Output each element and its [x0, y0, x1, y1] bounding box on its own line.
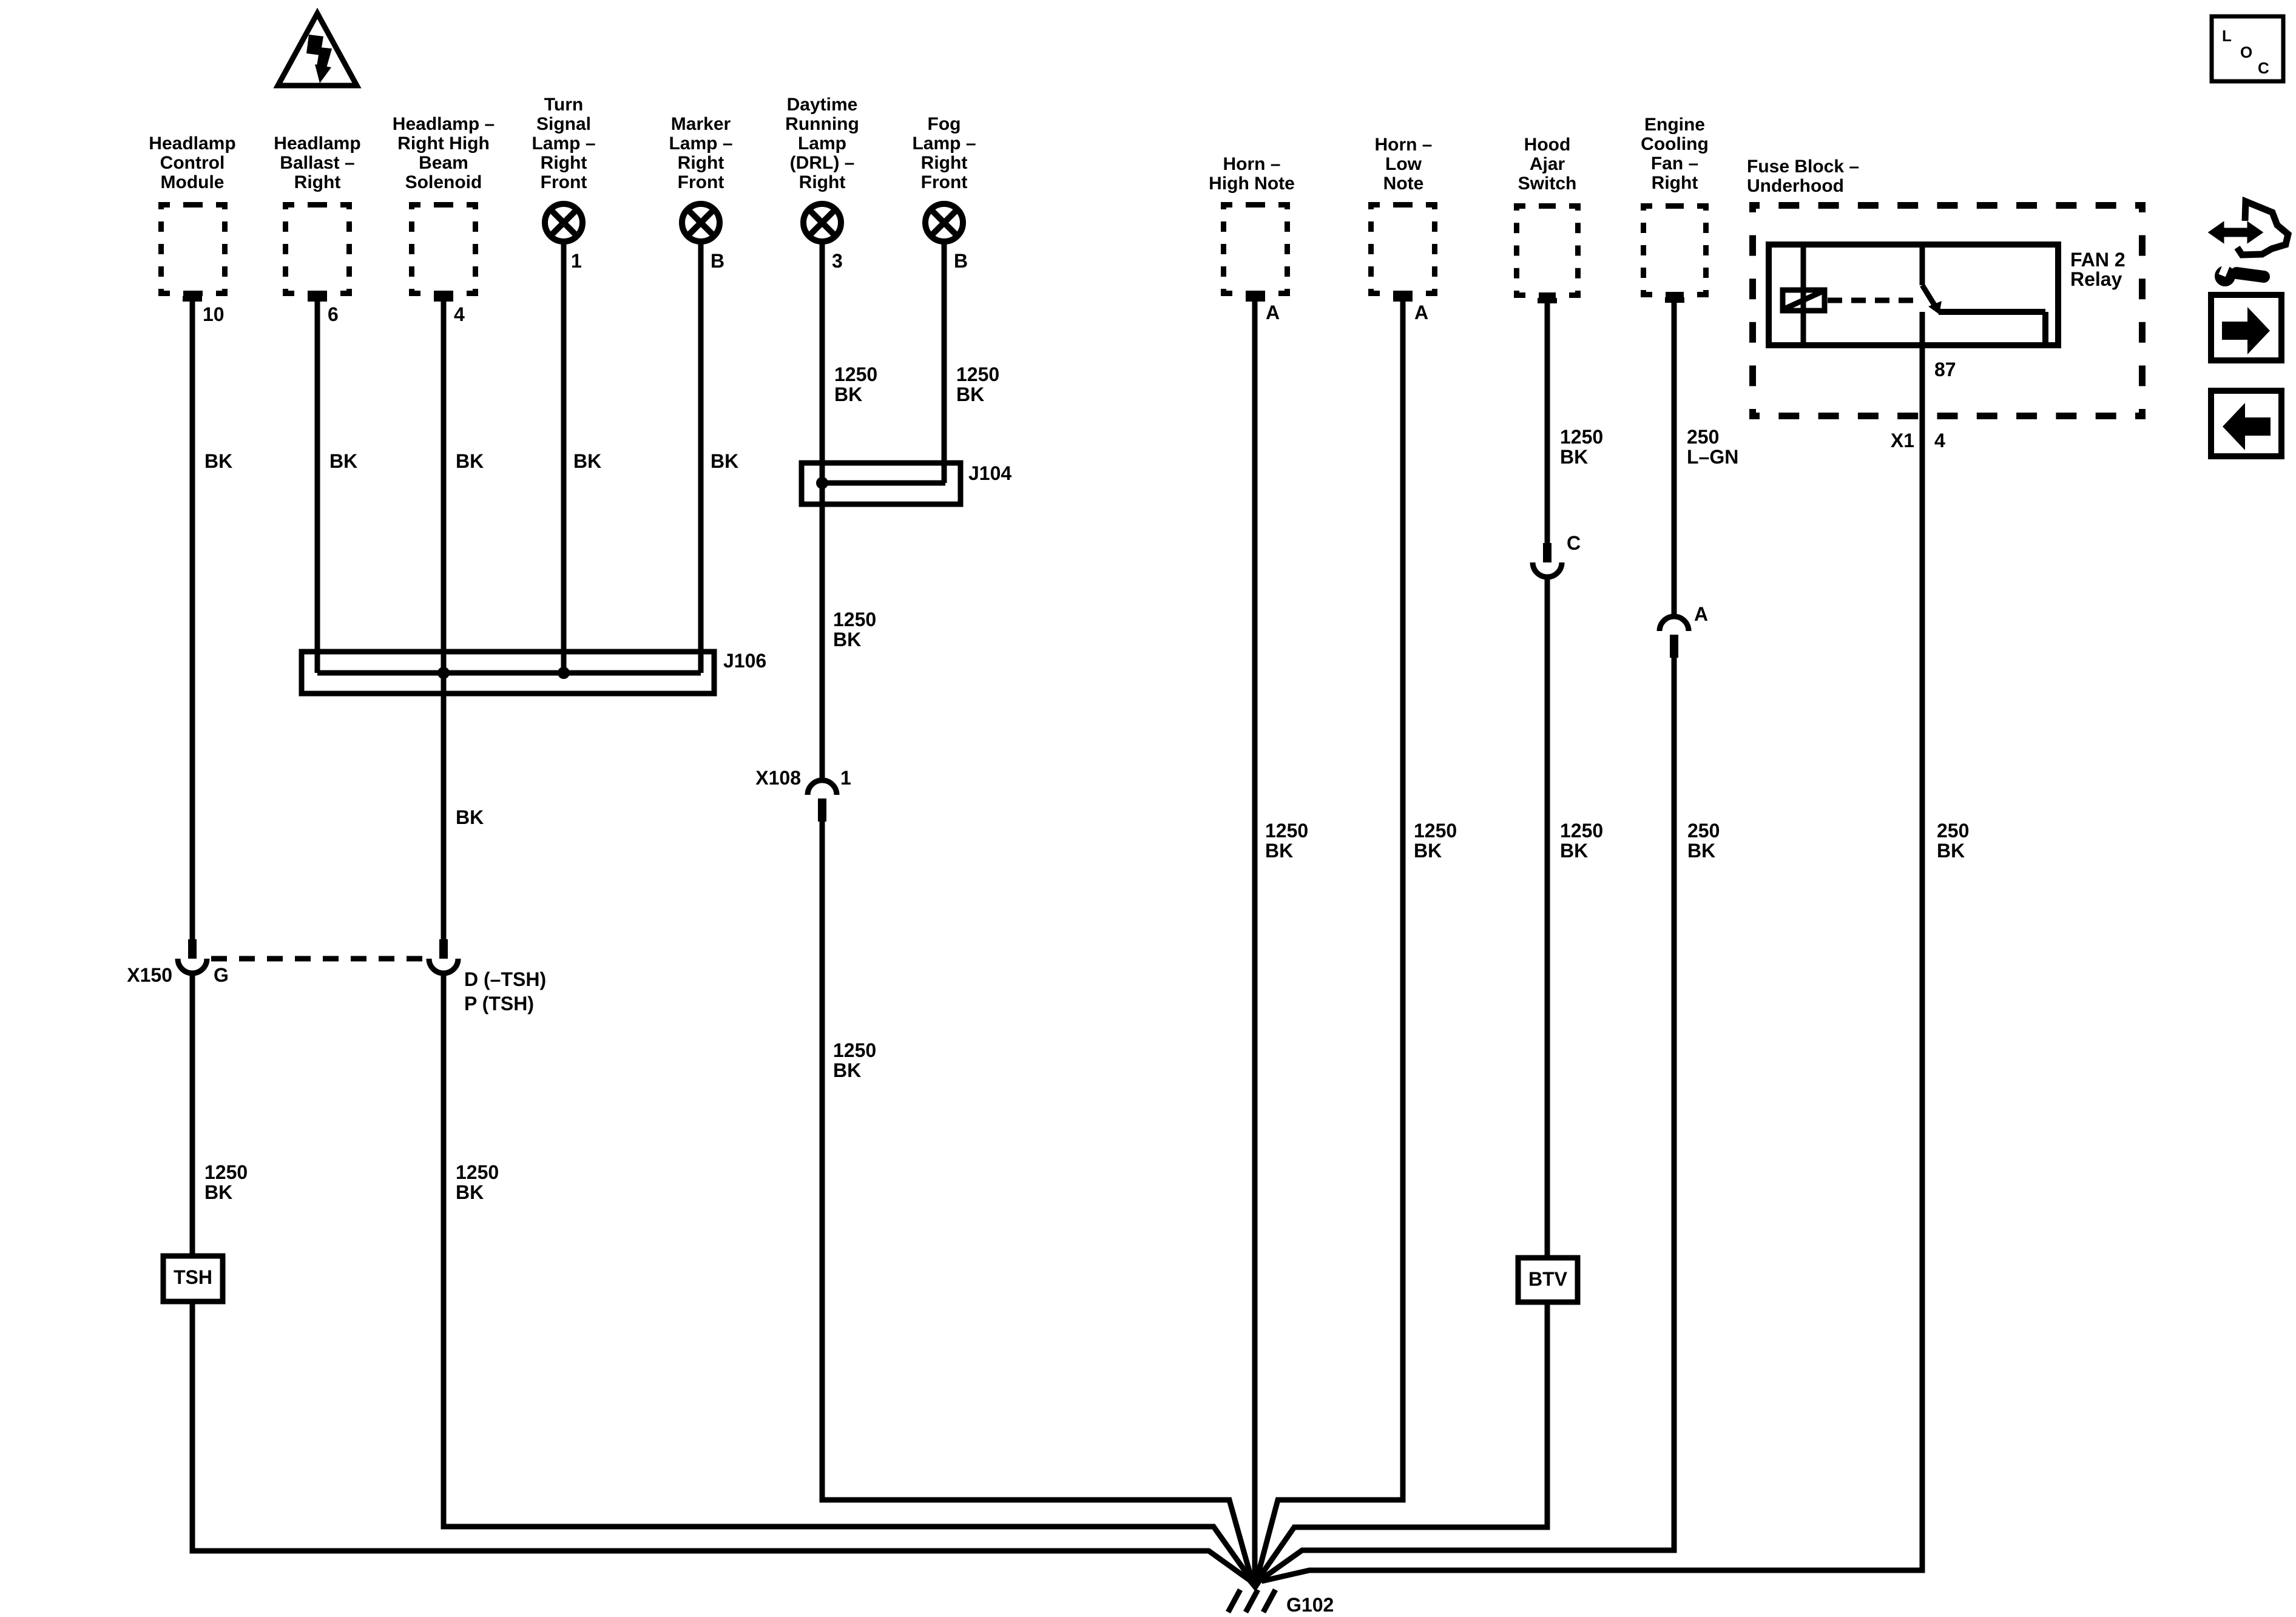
svg-text:L: L — [2222, 27, 2232, 45]
svg-text:Horn –: Horn – — [1374, 135, 1432, 155]
connector X108 (inline) — [808, 780, 837, 795]
wire - X150 G to TSH symbol — [190, 972, 195, 1256]
svg-text:Ajar: Ajar — [1530, 154, 1565, 174]
connector box - Headlamp Ballast (dashed) — [283, 202, 352, 208]
wire - Horn Low Note down and left to ground G102 — [1257, 299, 1403, 1578]
svg-text:J104: J104 — [968, 462, 1011, 484]
pin stub - Headlamp Control Module — [183, 296, 202, 302]
svg-text:BK: BK — [711, 450, 738, 472]
wire - relay pin 87 down through X1-4 to ground G102 — [1261, 312, 1922, 1581]
svg-text:Headlamp: Headlamp — [149, 133, 235, 154]
svg-text:Relay: Relay — [2070, 268, 2122, 290]
splice J104 bus bar — [822, 481, 945, 486]
pin stub - Headlamp Ballast — [308, 296, 327, 302]
relay coil support line — [1801, 245, 1806, 345]
wire - Solenoid pin 4 through J106 to X150 D — [441, 299, 447, 942]
pin stub - Horn Low Note — [1393, 296, 1413, 302]
connector A (inline) — [1660, 616, 1689, 631]
svg-text:4: 4 — [454, 303, 465, 325]
svg-text:1250: 1250 — [456, 1161, 499, 1183]
svg-text:BK: BK — [456, 450, 484, 472]
svg-text:C: C — [2258, 59, 2269, 77]
wire - TSH down and right to ground G102 — [192, 1301, 1249, 1580]
svg-text:Lamp –: Lamp – — [669, 133, 732, 154]
svg-text:1250: 1250 — [834, 363, 877, 385]
wire - Marker Lamp to splice J106 — [698, 241, 704, 673]
svg-text:BK: BK — [456, 1181, 484, 1203]
svg-text:BK: BK — [1937, 840, 1965, 862]
dashed connector link X150 — [211, 956, 428, 962]
svg-text:Hood: Hood — [1524, 135, 1571, 155]
svg-text:Right: Right — [678, 153, 724, 173]
svg-text:BK: BK — [456, 806, 484, 828]
svg-text:BK: BK — [204, 450, 232, 472]
svg-text:BK: BK — [329, 450, 357, 472]
junction dot J104 — [816, 477, 828, 489]
wire - connector C to BTV symbol — [1545, 576, 1550, 1258]
svg-text:1: 1 — [571, 250, 582, 272]
lamp symbol - Marker Lamp — [682, 204, 720, 241]
relay contact bar — [1939, 309, 2045, 315]
svg-text:G: G — [214, 964, 229, 986]
relay coil box — [1783, 290, 1825, 311]
svg-text:P (TSH): P (TSH) — [464, 993, 534, 1014]
ground G102 hatch 2 — [1246, 1590, 1258, 1612]
svg-text:250: 250 — [1687, 426, 1719, 448]
wire - X108 down and right to ground G102 — [822, 820, 1251, 1578]
connector X150 D (inline) — [439, 939, 448, 959]
svg-text:1: 1 — [840, 767, 851, 789]
svg-text:Horn –: Horn – — [1223, 154, 1280, 174]
svg-text:4: 4 — [1934, 430, 1945, 451]
svg-text:Note: Note — [1383, 174, 1424, 194]
svg-text:BK: BK — [1687, 840, 1715, 862]
relay coil to switch dashed line — [1828, 298, 1916, 303]
pin stub - Engine Cooling Fan — [1665, 297, 1684, 303]
wire - Fog Lamp to splice J104 — [942, 241, 947, 483]
ground G102 blob — [1241, 1575, 1267, 1592]
svg-text:X150: X150 — [127, 964, 172, 986]
lamp symbol - Fog Lamp — [925, 204, 963, 241]
relay switch blade — [1922, 285, 1937, 309]
svg-text:Daytime: Daytime — [787, 95, 858, 115]
svg-text:1250: 1250 — [204, 1161, 248, 1183]
splice J106 bus bar — [317, 670, 701, 676]
svg-text:BK: BK — [204, 1181, 232, 1203]
svg-text:1250: 1250 — [956, 363, 999, 385]
svg-text:BK: BK — [1265, 840, 1293, 862]
svg-text:Module: Module — [161, 172, 225, 192]
svg-text:A: A — [1414, 302, 1428, 323]
svg-text:X108: X108 — [755, 767, 801, 789]
svg-text:1250: 1250 — [833, 609, 876, 630]
junction dot J106 col3 — [437, 667, 450, 679]
relay contact bar drop — [2042, 312, 2048, 342]
svg-text:FAN 2: FAN 2 — [2070, 249, 2125, 271]
svg-text:Front: Front — [678, 172, 724, 192]
svg-text:Right: Right — [541, 153, 587, 173]
svg-text:Turn: Turn — [544, 95, 583, 115]
svg-text:Marker: Marker — [671, 114, 731, 134]
svg-text:Fuse Block –: Fuse Block – — [1747, 157, 1859, 177]
relay coil diagonal — [1786, 292, 1822, 308]
symbol TSH (in-line) — [163, 1256, 223, 1301]
LOC legend box — [2212, 16, 2283, 81]
wire - connector A down and left to ground G102 — [1260, 655, 1674, 1580]
connector box - Hood Ajar Switch (dashed) — [1514, 203, 1581, 209]
junction dot J106 col4 — [558, 667, 570, 679]
lamp symbol - Turn Signal Lamp — [545, 204, 582, 241]
relay FAN 2 outer box — [1769, 245, 2058, 345]
pin stub - High Beam Solenoid — [434, 296, 453, 302]
svg-text:C: C — [1567, 532, 1581, 554]
svg-text:Low: Low — [1385, 154, 1422, 174]
connector X150 G (inline) — [188, 939, 197, 959]
svg-text:Headlamp –: Headlamp – — [393, 114, 495, 134]
svg-text:BK: BK — [956, 383, 984, 405]
svg-text:1250: 1250 — [1560, 426, 1603, 448]
svg-text:B: B — [711, 250, 724, 272]
wire - DRL lamp through J104 to X108 — [820, 241, 825, 783]
svg-text:Headlamp: Headlamp — [274, 133, 360, 154]
relay switch feed line — [1920, 245, 1925, 285]
svg-text:Underhood: Underhood — [1747, 176, 1844, 196]
svg-text:TSH: TSH — [174, 1266, 212, 1288]
svg-text:D (–TSH): D (–TSH) — [464, 968, 546, 990]
svg-text:BK: BK — [833, 629, 861, 650]
wire - BTV down and left to ground G102 — [1258, 1302, 1547, 1579]
splice J104 box — [802, 463, 961, 504]
svg-text:L–GN: L–GN — [1687, 446, 1738, 468]
svg-text:87: 87 — [1934, 359, 1956, 380]
svg-text:B: B — [954, 250, 968, 272]
svg-text:BK: BK — [1560, 840, 1588, 862]
ground G102 hatch 3 — [1263, 1590, 1275, 1612]
svg-text:Switch: Switch — [1518, 174, 1577, 194]
svg-text:Signal: Signal — [536, 114, 591, 134]
wire - Horn High Note to ground G102 — [1252, 299, 1258, 1578]
svg-text:G102: G102 — [1286, 1594, 1334, 1616]
svg-text:Running: Running — [785, 114, 859, 134]
svg-text:1250: 1250 — [1414, 820, 1457, 842]
wire - Turn Signal Lamp to splice J106 — [561, 241, 567, 673]
splice J106 box — [302, 652, 714, 694]
ground G102 hatch 1 — [1228, 1590, 1240, 1612]
svg-text:Ballast –: Ballast – — [280, 153, 354, 173]
svg-text:A: A — [1266, 302, 1280, 323]
svg-text:Lamp: Lamp — [798, 133, 846, 154]
svg-text:BTV: BTV — [1528, 1268, 1568, 1290]
wire - Engine Cooling Fan to connector A — [1672, 300, 1677, 619]
svg-text:250: 250 — [1687, 820, 1720, 842]
svg-text:Solenoid: Solenoid — [405, 172, 482, 192]
warning symbol - high voltage triangle — [278, 13, 357, 86]
wire - Headlamp Ballast pin 6 to splice J106 — [315, 299, 320, 673]
connector box - Engine Cooling Fan (dashed) — [1641, 203, 1709, 209]
svg-text:BK: BK — [1560, 446, 1588, 468]
svg-text:Right: Right — [1652, 173, 1698, 193]
svg-text:1250: 1250 — [1265, 820, 1308, 842]
svg-text:Lamp –: Lamp – — [532, 133, 595, 154]
wire - X150 D down and right to ground G102 — [444, 972, 1251, 1579]
svg-text:High Note: High Note — [1209, 174, 1295, 194]
svg-text:Right: Right — [294, 172, 341, 192]
pin stub - Horn High Note — [1246, 296, 1265, 302]
svg-text:Cooling: Cooling — [1641, 134, 1709, 154]
svg-text:250: 250 — [1937, 820, 1969, 842]
wire - Hood Ajar Switch to connector C — [1545, 301, 1550, 545]
svg-text:Lamp –: Lamp – — [912, 133, 976, 154]
svg-text:J106: J106 — [723, 650, 766, 672]
icon - adjust/repair (arrow, vehicle outline, wrench) — [2210, 224, 2261, 241]
svg-text:Right: Right — [921, 153, 968, 173]
svg-text:O: O — [2240, 43, 2252, 61]
svg-text:6: 6 — [328, 303, 339, 325]
connector box - Horn Low Note (dashed) — [1368, 202, 1437, 208]
svg-text:Fan –: Fan – — [1651, 154, 1698, 174]
svg-text:BK: BK — [834, 383, 862, 405]
relay switch arrowhead — [1928, 301, 1942, 314]
icon - forward arrow box — [2211, 295, 2281, 360]
svg-text:BK: BK — [1414, 840, 1442, 862]
svg-text:(DRL) –: (DRL) – — [790, 153, 855, 173]
svg-text:3: 3 — [832, 250, 843, 272]
svg-text:Right: Right — [799, 172, 846, 192]
connector box - Headlamp Control Module (dashed) — [158, 202, 228, 208]
fuse block underhood box (dashed) — [1749, 202, 2146, 209]
icon - back arrow box — [2211, 391, 2281, 456]
connector box - Horn High Note (dashed) — [1221, 202, 1290, 208]
lamp symbol - Daytime Running Lamp — [803, 204, 841, 241]
pin stub - Hood Ajar Switch — [1538, 298, 1557, 303]
svg-text:Beam: Beam — [419, 153, 468, 173]
svg-text:Front: Front — [541, 172, 587, 192]
svg-text:Right High: Right High — [397, 133, 490, 154]
symbol BTV (in-line) — [1518, 1258, 1578, 1302]
connector box - High Beam Solenoid (dashed) — [409, 202, 478, 208]
svg-text:1250: 1250 — [833, 1039, 876, 1061]
svg-text:1250: 1250 — [1560, 820, 1603, 842]
svg-text:BK: BK — [573, 450, 601, 472]
svg-text:A: A — [1694, 603, 1708, 625]
svg-text:Fog: Fog — [928, 114, 961, 134]
svg-text:X1: X1 — [1891, 430, 1914, 451]
svg-text:Control: Control — [160, 153, 225, 173]
svg-text:Front: Front — [921, 172, 968, 192]
svg-text:10: 10 — [203, 303, 225, 325]
svg-text:BK: BK — [833, 1059, 861, 1081]
wire - Headlamp Control Module pin 10 down to X150 G — [190, 299, 195, 942]
svg-text:Engine: Engine — [1644, 115, 1705, 135]
connector C (inline) — [1543, 543, 1551, 562]
